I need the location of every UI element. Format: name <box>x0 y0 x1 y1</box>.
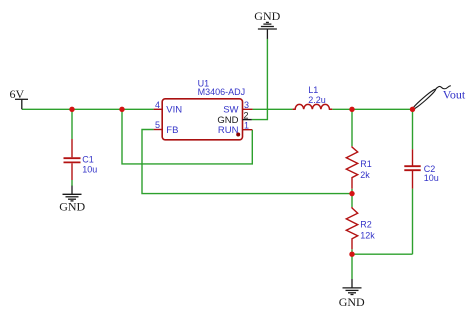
svg-text:2: 2 <box>244 111 249 121</box>
svg-text:R2: R2 <box>360 219 372 229</box>
inductor L1 <box>293 104 333 109</box>
wire R1 bottom to R2 top <box>351 189 353 207</box>
U1 pin 3 stub SW <box>243 108 253 110</box>
wire FB: left of pin 5, down, right to divider node <box>142 130 352 194</box>
svg-text:VIN: VIN <box>166 105 182 116</box>
wire bottom rail R2 to C2 <box>352 253 413 255</box>
svg-text:2k: 2k <box>360 170 370 180</box>
wire top GND net: vertical and to pin 2 <box>252 39 268 120</box>
svg-text:GND: GND <box>339 295 365 309</box>
svg-text:L1: L1 <box>308 85 318 95</box>
junction node at Vout/C2 <box>410 107 415 112</box>
resistor R1 <box>346 146 357 189</box>
junction node at R2 bottom <box>349 252 354 257</box>
ground bottom (below R2) <box>343 279 362 295</box>
svg-text:2.2u: 2.2u <box>308 95 326 105</box>
U1 pin 5 stub FB <box>154 129 163 131</box>
wire main 6V rail <box>22 108 154 110</box>
wire C2 bottom down to bottom rail <box>412 189 414 255</box>
resistor R2 <box>346 207 357 249</box>
junction node at enable tap <box>119 107 124 112</box>
svg-text:4: 4 <box>155 100 160 110</box>
junction node at C1 tap <box>69 107 74 112</box>
U1 pin 4 stub VIN <box>154 108 163 110</box>
svg-text:10u: 10u <box>82 164 97 174</box>
ground below C1 <box>63 186 82 201</box>
op-amp/regulator U1 box <box>162 99 242 140</box>
capacitor C1 <box>64 139 81 180</box>
svg-text:M3406-ADJ: M3406-ADJ <box>198 87 246 97</box>
RUN pin indicator dot <box>236 133 240 137</box>
svg-text:6V: 6V <box>10 87 25 101</box>
wire C1 to ground <box>71 180 73 186</box>
U1 pin 2 stub GND (black) <box>243 119 252 121</box>
svg-text:1: 1 <box>244 120 249 130</box>
svg-text:Vout: Vout <box>443 87 466 101</box>
svg-text:RUN: RUN <box>218 125 239 136</box>
U1 pin 1 stub RUN <box>243 129 253 131</box>
wire SW to L1 <box>253 108 293 110</box>
junction node at R1 top <box>349 107 354 112</box>
svg-text:R1: R1 <box>360 159 372 169</box>
wire R2 bottom to ground <box>351 249 353 279</box>
svg-text:GND: GND <box>254 9 280 23</box>
junction node at divider mid <box>349 191 354 196</box>
svg-text:5: 5 <box>155 120 160 130</box>
wire C1 tap down <box>71 109 73 139</box>
svg-text:FB: FB <box>166 125 178 136</box>
ground top (flipped) <box>258 22 277 39</box>
svg-text:3: 3 <box>244 100 249 110</box>
wire L1 to C2/Vout node <box>332 108 412 110</box>
probe Vout symbol <box>411 86 450 111</box>
wire RUN enable: down, right, up to pin 1 <box>122 109 252 164</box>
port 6V symbol <box>15 99 28 109</box>
svg-text:C1: C1 <box>82 155 94 165</box>
capacitor C2 <box>404 149 420 188</box>
wire R1 top lead <box>351 109 353 146</box>
wire C2 top lead <box>412 109 414 149</box>
svg-text:GND: GND <box>59 200 85 214</box>
svg-text:12k: 12k <box>360 230 375 240</box>
svg-text:10u: 10u <box>424 173 439 183</box>
